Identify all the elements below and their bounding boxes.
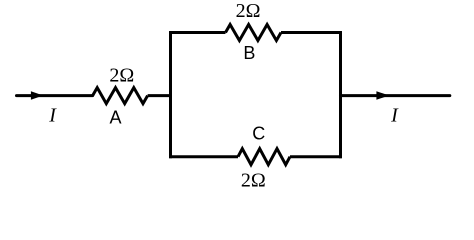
arrowhead: right current direction: [376, 91, 389, 100]
resistor C (2 ohm) zigzag: [238, 149, 290, 165]
wire: bottom-left horizontal: [169, 155, 238, 158]
resistor A (2 ohm) zigzag: [93, 88, 148, 104]
svg-text:A: A: [109, 107, 121, 127]
svg-text:B: B: [243, 43, 255, 63]
wire: right vertical of parallel branch: [339, 31, 342, 158]
svg-text:2Ω: 2Ω: [109, 65, 134, 87]
wire: bottom-right horizontal: [290, 155, 342, 158]
svg-text:2Ω: 2Ω: [241, 170, 266, 192]
wire: left vertical of parallel branch: [169, 31, 172, 158]
wire: right output lead: [341, 94, 450, 97]
wire: resistor A to node (left vertical): [148, 94, 171, 97]
svg-text:I: I: [48, 104, 57, 126]
wire: top-right horizontal: [281, 31, 342, 34]
wire: top-left horizontal: [169, 31, 225, 34]
svg-text:I: I: [390, 104, 399, 126]
wire: left input lead: [17, 94, 93, 97]
resistor B (2 ohm) zigzag: [226, 25, 282, 41]
svg-text:C: C: [252, 124, 265, 144]
svg-text:2Ω: 2Ω: [236, 0, 261, 22]
arrowhead: left current direction: [31, 91, 43, 100]
